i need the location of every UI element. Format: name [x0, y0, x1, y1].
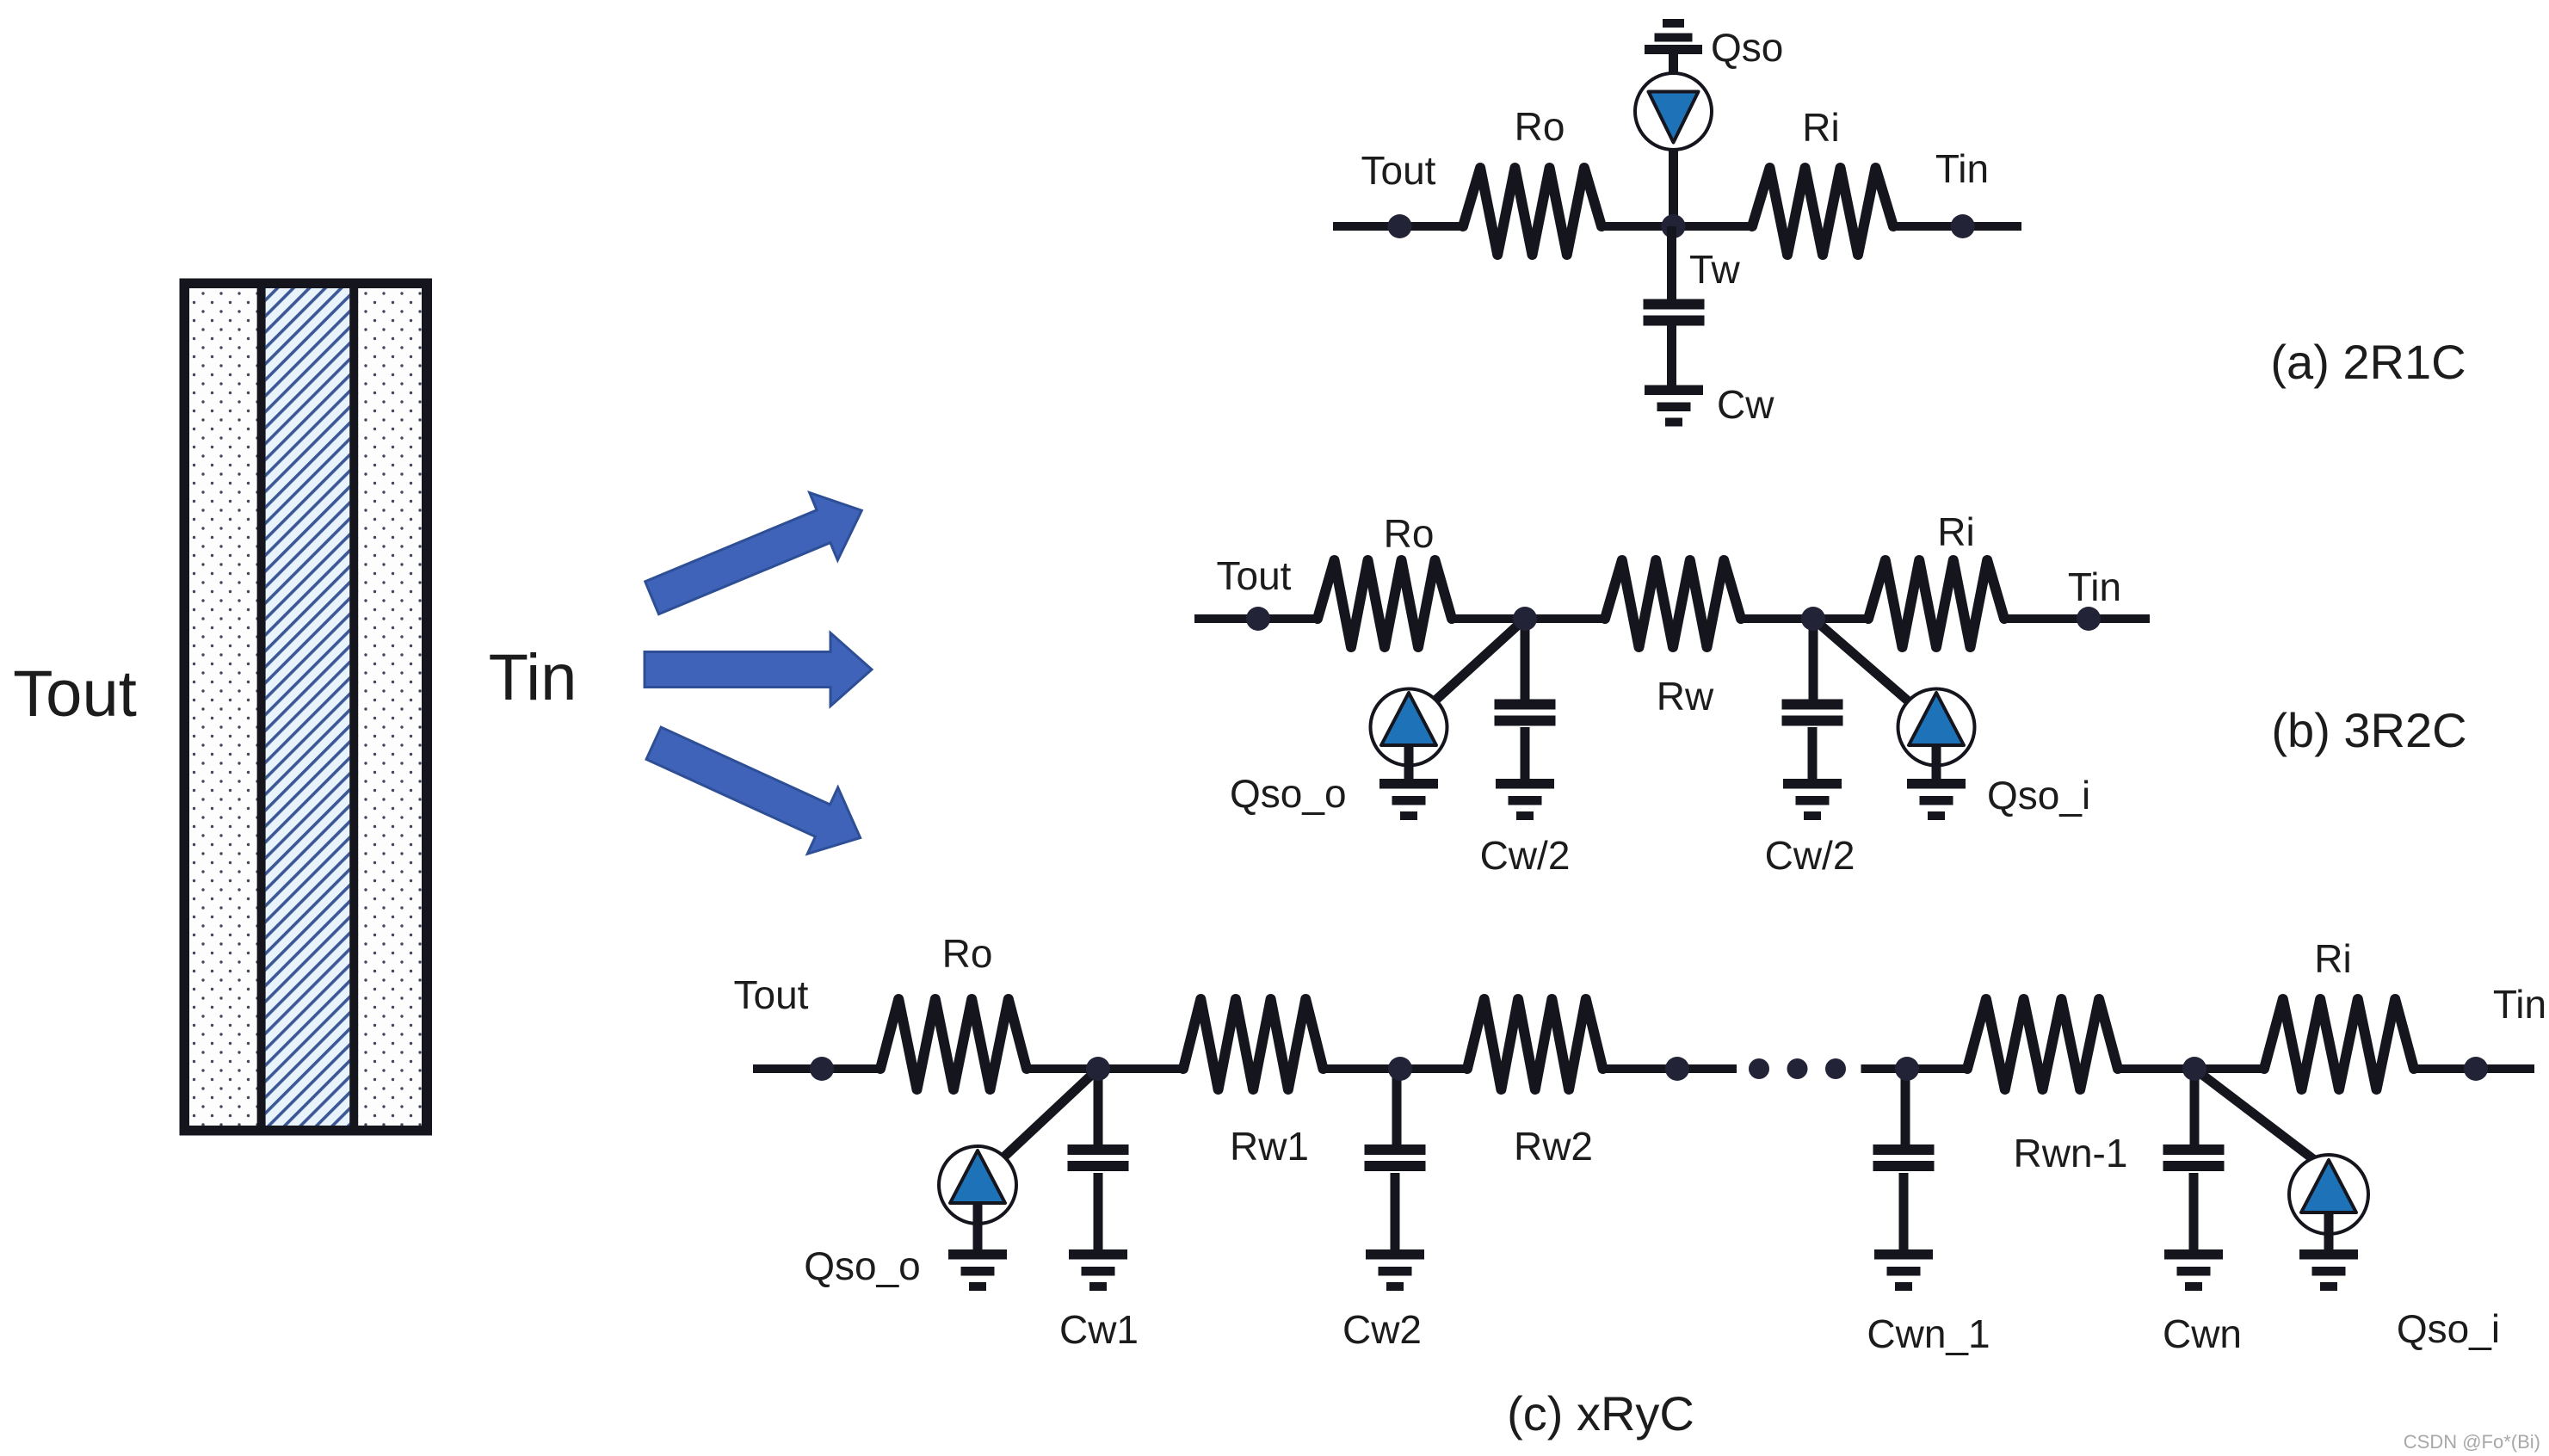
svg-text:Qso_i: Qso_i	[2397, 1306, 2500, 1351]
node (c) node A	[1665, 1057, 1689, 1081]
label Qso_i (b)	[1987, 773, 2090, 817]
wall inner plaster layer (dotted)	[358, 288, 422, 1126]
label Qso (a)	[1711, 25, 1783, 70]
label Cwn_1 (c)	[1867, 1311, 1990, 1356]
wire (c) Rw2 to node A	[1603, 1064, 1737, 1073]
wire (a) capacitor to ground	[1667, 324, 1676, 386]
svg-text:Qso_i: Qso_i	[1987, 773, 2090, 817]
arrow up-right	[638, 477, 875, 632]
wire (b) source stem	[1404, 745, 1414, 780]
svg-text:(c) xRyC: (c) xRyC	[1507, 1386, 1694, 1441]
svg-text:Rw: Rw	[1657, 674, 1714, 719]
wire (b) node1 to capacitor	[1521, 619, 1530, 700]
label Tw (a)	[1689, 247, 1741, 292]
label Tout (b)	[1217, 553, 1292, 598]
wire (a) ground to source	[1669, 54, 1678, 77]
svg-text:Rw1: Rw1	[1230, 1124, 1309, 1169]
wire (b) node2 to capacitor	[1809, 619, 1818, 700]
svg-text:Tin: Tin	[1935, 146, 1989, 191]
ground (c) below Cw1	[1069, 1249, 1127, 1291]
svg-text:Ri: Ri	[1937, 509, 1974, 554]
resistor Rw (b)	[1605, 560, 1741, 647]
current source Qso_i (b)	[1898, 689, 1975, 766]
node (b) Tout terminal	[1246, 607, 1270, 631]
caption (b) 3R2C	[2271, 703, 2466, 757]
arrow down-right	[639, 710, 875, 871]
label Ro (a)	[1515, 104, 1565, 149]
svg-text:Cw/2: Cw/2	[1480, 833, 1571, 878]
wire (c) node B to capacitor Cwn_1	[1901, 1069, 1910, 1145]
capacitor Cw (a) plates	[1644, 299, 1705, 326]
wire (b) node1 to source diagonal	[1418, 619, 1525, 716]
svg-text:Tout: Tout	[1217, 553, 1292, 598]
node (c) node 1	[1086, 1057, 1110, 1081]
svg-text:Ro: Ro	[942, 931, 993, 976]
svg-text:Ri: Ri	[1802, 105, 1839, 150]
wire (b) Ri to Tin	[2004, 614, 2150, 623]
svg-text:CSDN @Fo*(Bi): CSDN @Fo*(Bi)	[2404, 1431, 2540, 1453]
wire (c) right source stem	[2324, 1212, 2334, 1250]
wire (a) Tout lead	[1333, 222, 1463, 231]
label Ro (b)	[1384, 511, 1435, 556]
resistor Ro (c)	[880, 999, 1027, 1089]
caption (a) 2R1C	[2270, 335, 2466, 389]
wire (b) cap to ground left	[1521, 727, 1530, 780]
watermark CSDN	[2404, 1431, 2540, 1453]
arrow right	[645, 633, 872, 706]
ground (b) below left Cw/2	[1496, 779, 1554, 820]
svg-text:Cwn_1: Cwn_1	[1867, 1311, 1990, 1356]
label Tout (a)	[1361, 148, 1436, 193]
svg-text:Cw1: Cw1	[1059, 1307, 1139, 1352]
resistor Rw1 (c)	[1183, 999, 1324, 1089]
wire (b) Tout lead	[1194, 614, 1318, 623]
wire (b) Ro to node 1	[1452, 614, 1605, 623]
label Cw2 (c)	[1342, 1307, 1422, 1352]
ground (a) top (heat source return)	[1645, 19, 1702, 54]
resistor Ri (a)	[1752, 168, 1893, 255]
wire (c) Ri to Tin	[2414, 1064, 2534, 1073]
svg-text:Ro: Ro	[1384, 511, 1435, 556]
wire (b) cap to ground right	[1808, 727, 1818, 780]
label Cwn (c)	[2163, 1311, 2242, 1356]
svg-text:Tout: Tout	[1361, 148, 1436, 193]
wire (c) node3 to source diagonal	[2194, 1069, 2317, 1162]
label Qso_o (c)	[804, 1243, 921, 1288]
wire (c) Rwn-1 to node 3	[2118, 1064, 2264, 1073]
ground (c) below Qso_i	[2299, 1249, 2358, 1291]
svg-text:Tin: Tin	[489, 641, 577, 714]
label Qso_i (c)	[2397, 1306, 2500, 1351]
svg-text:Cw: Cw	[1717, 382, 1774, 427]
wire (c) Cw1 to ground	[1094, 1173, 1103, 1250]
label Ri (a)	[1802, 105, 1839, 150]
svg-text:Cwn: Cwn	[2163, 1311, 2242, 1356]
wire (c) Ro to node 1	[1027, 1064, 1183, 1073]
svg-text:Cw/2: Cw/2	[1765, 833, 1855, 878]
wire (c) node2 to capacitor Cw2	[1392, 1069, 1402, 1145]
label Ri (c)	[2314, 936, 2351, 981]
label Rw2 (c)	[1514, 1124, 1593, 1169]
wire (b) Rw to node 2	[1741, 614, 1868, 623]
svg-text:Ri: Ri	[2314, 936, 2351, 981]
svg-text:Tout: Tout	[734, 972, 809, 1017]
ground (b) below Qso_o	[1379, 779, 1438, 820]
node (c) Tin terminal	[2464, 1057, 2488, 1081]
capacitor Cw/2 left (b) plates	[1495, 700, 1556, 726]
wire (a) node to capacitor	[1667, 226, 1676, 299]
wire (c) Tout lead	[753, 1064, 880, 1073]
current source Qso_i (c)	[2289, 1155, 2368, 1234]
wire (c) Cwn_1 to ground	[1899, 1173, 1909, 1250]
wire (b) right source stem	[1932, 745, 1941, 780]
resistor Rw2 (c)	[1467, 999, 1603, 1089]
svg-text:Tin: Tin	[2068, 565, 2121, 609]
label Rw1 (c)	[1230, 1124, 1309, 1169]
capacitor Cw/2 right (b) plates	[1782, 700, 1843, 726]
ellipsis dot 2 (c)	[1787, 1058, 1808, 1079]
node (a) Tout terminal	[1388, 214, 1412, 238]
wall insulation layer (blue hatch)	[266, 288, 350, 1126]
wire (a) source to node Tw	[1669, 146, 1678, 226]
node (b) node 2	[1801, 607, 1825, 631]
svg-text:Qso_o: Qso_o	[1230, 771, 1347, 816]
node (b) node 1	[1513, 607, 1537, 631]
wire (c) left source stem	[973, 1203, 983, 1250]
ground (c) below Cwn	[2164, 1249, 2223, 1291]
node (a) centre node Tw	[1662, 214, 1686, 238]
resistor Rwn-1 (c)	[1967, 999, 2118, 1089]
label Cw1 (c)	[1059, 1307, 1139, 1352]
node (c) node 2	[1388, 1057, 1412, 1081]
wire (c) node1 to source diagonal	[990, 1069, 1098, 1170]
svg-text:Qso: Qso	[1711, 25, 1783, 70]
capacitor Cwn_1 (c) plates	[1873, 1144, 1935, 1171]
label Rwn-1 (c)	[2014, 1131, 2128, 1175]
ellipsis dot 1 (c)	[1749, 1058, 1769, 1079]
wire (c) node1 to capacitor Cw1	[1094, 1069, 1103, 1145]
svg-text:Qso_o: Qso_o	[804, 1243, 921, 1288]
ground (b) below right Cw/2	[1783, 779, 1842, 820]
label Rw (b)	[1657, 674, 1714, 719]
ground (c) below Cwn_1	[1874, 1249, 1933, 1291]
label Tin (a)	[1935, 146, 1989, 191]
label Ro (c)	[942, 931, 993, 976]
label Cw (a)	[1717, 382, 1774, 427]
svg-text:(a) 2R1C: (a) 2R1C	[2270, 335, 2466, 389]
capacitor Cw1 (c) plates	[1068, 1144, 1129, 1171]
wall outer frame	[185, 284, 428, 1131]
current source Qso_o (c)	[939, 1146, 1016, 1224]
capacitor Cw2 (c) plates	[1365, 1144, 1426, 1171]
ellipsis dot 3 (c)	[1825, 1058, 1846, 1079]
node (c) node 3	[2182, 1057, 2206, 1081]
svg-text:Rwn-1: Rwn-1	[2014, 1131, 2128, 1175]
label Cw/2 left (b)	[1480, 833, 1571, 878]
node (a) Tin terminal	[1951, 214, 1975, 238]
ground (b) below Qso_i	[1907, 779, 1966, 820]
wire (a) Ro to centre node	[1602, 222, 1752, 231]
caption (c) xRyC	[1507, 1386, 1694, 1441]
wire (b) node2 to source diagonal	[1813, 619, 1923, 714]
wall outer plaster layer (dotted)	[189, 288, 257, 1126]
resistor Ri (b)	[1868, 560, 2004, 647]
svg-text:Ro: Ro	[1515, 104, 1565, 149]
label Tin (c)	[2493, 982, 2546, 1027]
svg-text:Tout: Tout	[13, 657, 137, 731]
label Cw/2 right (b)	[1765, 833, 1855, 878]
resistor Ri (c)	[2264, 999, 2414, 1089]
label Tout (c)	[734, 972, 809, 1017]
resistor Ro (b)	[1318, 560, 1452, 647]
node (b) Tin terminal	[2077, 607, 2101, 631]
svg-text:Tw: Tw	[1689, 247, 1741, 292]
svg-text:(b) 3R2C: (b) 3R2C	[2271, 703, 2466, 757]
wire (c) node3 to capacitor Cwn	[2190, 1069, 2200, 1145]
node (c) Tout terminal	[810, 1057, 834, 1081]
current source Qso (a)	[1635, 73, 1712, 150]
wall layer divider 2	[349, 284, 358, 1131]
capacitor Cwn (c) plates	[2163, 1144, 2225, 1171]
node (c) node B	[1895, 1057, 1919, 1081]
svg-text:Cw2: Cw2	[1342, 1307, 1422, 1352]
ground (a) below Cw	[1645, 386, 1703, 427]
wall layer divider 1	[257, 284, 266, 1131]
label Ri (b)	[1937, 509, 1974, 554]
wire (c) Rw1 to node 2	[1324, 1064, 1468, 1073]
svg-text:Tin: Tin	[2493, 982, 2546, 1027]
svg-text:Rw2: Rw2	[1514, 1124, 1593, 1169]
label Tin (b)	[2068, 565, 2121, 609]
resistor Ro (a)	[1463, 168, 1602, 255]
wire (c) Cwn to ground	[2189, 1173, 2199, 1250]
label Tin (wall inside)	[489, 641, 577, 714]
current source Qso_o (b)	[1371, 689, 1447, 766]
wire (a) Ri to Tin	[1893, 222, 2021, 231]
ground (c) below Qso_o	[948, 1249, 1007, 1291]
label Tout (wall outside)	[13, 657, 137, 731]
ground (c) below Cw2	[1366, 1249, 1424, 1291]
wire (c) dots to node B	[1861, 1064, 1968, 1073]
wire (c) Cw2 to ground	[1391, 1173, 1400, 1250]
label Qso_o (b)	[1230, 771, 1347, 816]
